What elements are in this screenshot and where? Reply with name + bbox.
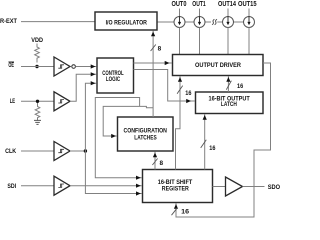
wire break to OUT14 bbox=[217, 21, 222, 23]
inverter bubble OE bbox=[72, 65, 76, 69]
bus slash 16 (latch) bbox=[201, 140, 207, 148]
arrow into output driver bottom bbox=[178, 77, 182, 82]
svg-text:CLK: CLK bbox=[5, 148, 16, 155]
svg-text:LE: LE bbox=[10, 98, 15, 105]
bus slash 16 (driver) bbox=[177, 86, 183, 94]
wire LE input bbox=[21, 100, 54, 102]
node junction CLK bbox=[84, 149, 87, 152]
wire SDI input bbox=[21, 185, 54, 187]
wire I/O regulator to current sources row bbox=[157, 21, 174, 23]
wire SDO output bbox=[243, 186, 265, 188]
arrow into control logic (CLK) bbox=[91, 81, 96, 85]
ground bbox=[34, 120, 41, 124]
wire OUT1 to break bbox=[205, 21, 211, 23]
arrow into output driver bbox=[165, 61, 170, 65]
wire SDI buffer to shift register bbox=[70, 185, 142, 187]
wire shift register to configuration latches bbox=[154, 152, 156, 170]
svg-text:16: 16 bbox=[209, 145, 216, 152]
svg-text:SDI: SDI bbox=[7, 183, 16, 190]
wire shift register to SDO buffer bbox=[213, 186, 226, 188]
resistor pull-down on LE bbox=[35, 103, 40, 121]
buffer SDO bbox=[226, 177, 243, 196]
arrow into configuration latches bottom bbox=[153, 153, 157, 158]
svg-text:OUT0: OUT0 bbox=[172, 1, 187, 8]
arrow into shift register bottom bbox=[174, 204, 178, 209]
svg-text:LOGIC: LOGIC bbox=[106, 76, 120, 83]
wire shift register to output latch (16) bbox=[204, 114, 206, 170]
svg-text:LATCHES: LATCHES bbox=[134, 134, 157, 141]
box OUTPUT DRIVER bbox=[173, 55, 264, 76]
svg-text:OUT1: OUT1 bbox=[192, 1, 206, 8]
box I/O REGULATOR bbox=[95, 12, 157, 30]
arrow into output driver bottom (from latch) bbox=[226, 77, 230, 82]
resistor pull-up on OE bbox=[35, 44, 40, 63]
svg-text:OUT14: OUT14 bbox=[218, 1, 236, 8]
svg-text:VDD: VDD bbox=[31, 37, 43, 44]
wire OUT14 column into output driver bbox=[227, 28, 229, 55]
wire OUT14 pin stub bbox=[227, 9, 229, 17]
arrow into configuration latches bbox=[111, 134, 116, 138]
wire CLK up to control logic bbox=[85, 83, 96, 151]
svg-text:REGISTER: REGISTER bbox=[162, 186, 189, 193]
box CONTROL LOGIC bbox=[97, 58, 134, 93]
svg-text:16: 16 bbox=[185, 90, 192, 97]
wire OUT1 column into output driver bbox=[199, 28, 201, 55]
wire OE buffer to control logic bbox=[75, 66, 96, 68]
wire OUT15 pin stub bbox=[248, 9, 250, 17]
arrow into I/O regulator bbox=[151, 32, 155, 37]
schmitt buffer LE bbox=[54, 92, 70, 111]
svg-text:R-EXT: R-EXT bbox=[0, 18, 17, 25]
wire control logic to output latch bbox=[134, 70, 196, 102]
wire OUT0 pin stub bbox=[179, 9, 181, 17]
svg-text:OE: OE bbox=[8, 62, 14, 69]
svg-text:OUTPUT DRIVER: OUTPUT DRIVER bbox=[195, 62, 241, 69]
wire OE input bbox=[21, 66, 54, 68]
arrow into shift register bbox=[136, 176, 141, 180]
schmitt buffer SDI bbox=[54, 176, 70, 195]
wire R-EXT to I/O regulator bbox=[21, 21, 95, 23]
box 16-BIT SHIFT REGISTER bbox=[143, 170, 213, 203]
wire shift register to output driver (16) bbox=[176, 76, 181, 170]
node junction LE/pulldown bbox=[36, 100, 39, 103]
arrow into output latch bbox=[186, 99, 191, 103]
wire OUT15 column into output driver bbox=[248, 28, 250, 55]
arrow into shift register (SDI) bbox=[136, 184, 141, 188]
svg-text:LATCH: LATCH bbox=[221, 101, 237, 108]
break symbol bbox=[212, 19, 217, 25]
wire LE buffer to control logic bbox=[70, 74, 97, 101]
wire OUT14 to OUT15 bbox=[234, 21, 244, 23]
svg-text:8: 8 bbox=[160, 160, 164, 167]
schmitt buffer OE bbox=[54, 57, 70, 76]
svg-text:OUT15: OUT15 bbox=[238, 1, 257, 8]
current source I1 bbox=[194, 16, 205, 27]
arrow into control logic (OE) bbox=[91, 64, 96, 68]
svg-text:16: 16 bbox=[181, 209, 189, 216]
svg-text:I/O REGULATOR: I/O REGULATOR bbox=[106, 19, 148, 26]
svg-text:8: 8 bbox=[158, 46, 162, 53]
wire CLK down to shift register bbox=[85, 151, 142, 194]
wire configuration latches to I/O regulator bbox=[152, 31, 154, 118]
current source I15 bbox=[244, 16, 255, 27]
wire control logic to output driver bbox=[134, 62, 173, 64]
svg-text:16: 16 bbox=[237, 83, 244, 90]
wire CLK buffer to junction bbox=[70, 150, 85, 152]
wire CLK input bbox=[21, 150, 54, 152]
wire OUT0 column into output driver bbox=[179, 28, 181, 55]
bus slash 16 (feedback) bbox=[172, 208, 178, 216]
current source I0 bbox=[174, 16, 185, 27]
schmitt buffer CLK bbox=[54, 142, 70, 161]
node junction OE/pullup bbox=[35, 65, 38, 68]
arrow into shift register (CLK) bbox=[136, 191, 141, 195]
wire output latch to output driver (16) bbox=[227, 76, 229, 92]
bus slash 8 (I/O regulator) bbox=[151, 45, 156, 52]
bus slash 16 (latch to driver) bbox=[226, 81, 231, 90]
bus slash 8 (config) bbox=[152, 159, 157, 166]
wire between OUT0 and OUT1 bbox=[185, 21, 194, 23]
wire OUT1 pin stub bbox=[199, 9, 201, 17]
wire bridge to shift register top-left input bbox=[95, 98, 142, 178]
svg-text:SDO: SDO bbox=[268, 184, 280, 191]
current source I14 bbox=[223, 16, 234, 27]
wire output driver feedback to shift register (16) bbox=[176, 63, 271, 217]
arrow into output latch bottom bbox=[203, 115, 207, 120]
box 16-BIT OUTPUT LATCH bbox=[196, 92, 264, 114]
arrow into control logic (LE) bbox=[91, 72, 96, 76]
box CONFIGURATION LATCHES bbox=[118, 117, 174, 151]
wire bridge to configuration latches left input bbox=[103, 106, 153, 136]
